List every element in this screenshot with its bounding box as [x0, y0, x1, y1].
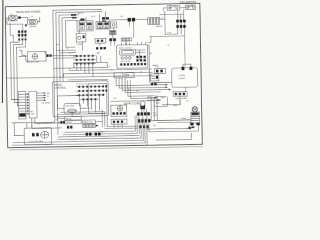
bus wire 5 — [66, 20, 77, 47]
wire lamp feed — [152, 81, 172, 83]
junction marks mid — [25, 24, 37, 28]
wire bottom loop — [58, 110, 108, 135]
border shadow bottom — [10, 147, 202, 150]
wire ground drops — [114, 124, 122, 128]
bottom hatched element — [83, 124, 99, 128]
connector J1 row1 — [18, 30, 27, 33]
right label box — [154, 96, 179, 107]
wire lamp tops — [183, 64, 191, 67]
ignitor cap row 2 — [176, 25, 185, 28]
svg-text:RELAY: RELAY — [66, 117, 73, 120]
connector J1 row3 — [18, 39, 27, 41]
fan wire left D — [58, 138, 141, 139]
supply plug — [140, 101, 145, 112]
svg-text:THERM: THERM — [29, 26, 36, 28]
wire band riser 6 — [130, 80, 157, 98]
svg-text:W: W — [47, 96, 49, 98]
switch SW3 — [76, 33, 86, 45]
wire band riser 2 — [119, 77, 165, 88]
board grid row wires — [76, 86, 102, 99]
wire below harness — [32, 117, 64, 128]
wire rungs into relay cluster — [54, 50, 76, 58]
bus junction blob — [71, 14, 77, 16]
wire cluster lefts — [105, 126, 138, 129]
svg-text:GRN: GRN — [161, 97, 166, 99]
wire board bottom outs — [57, 96, 103, 115]
bottom small box K1 — [65, 116, 82, 120]
svg-text:CONTROL: CONTROL — [55, 87, 67, 89]
cooling fan box — [26, 51, 47, 63]
ground terminal block — [111, 105, 127, 116]
svg-text:DR SW: DR SW — [114, 75, 121, 77]
valve V2 — [28, 16, 38, 24]
svg-text:L.V.: L.V. — [30, 16, 34, 18]
cord connector stack 2 — [138, 119, 151, 123]
wires from valve cluster down — [19, 33, 26, 39]
clock top pins — [121, 42, 145, 45]
ground row 2 — [111, 119, 127, 124]
label smudges extra — [36, 11, 189, 135]
door switch box — [114, 73, 123, 78]
wire caps to left — [149, 28, 185, 67]
fan wire left E — [13, 140, 143, 142]
wire clock right — [147, 37, 151, 83]
wire band low — [111, 100, 161, 103]
transformer T1 — [191, 107, 200, 123]
wire band riser 4 — [125, 77, 160, 93]
fan wire left B — [63, 133, 137, 134]
svg-text:COOLING FAN: COOLING FAN — [29, 140, 44, 143]
switch SW2 — [96, 21, 110, 29]
svg-text:P1 P2 P3 P4: P1 P2 P3 P4 — [76, 84, 87, 86]
connector CB1 — [128, 18, 136, 22]
fan wire left A — [64, 131, 135, 132]
svg-text:ELEC CLOCK: ELEC CLOCK — [119, 47, 132, 49]
wire CB1 drops — [129, 21, 133, 29]
wire board internals — [57, 95, 95, 112]
board relay oval — [64, 103, 80, 114]
wire cross mid — [7, 67, 153, 82]
wire mid left junction — [54, 67, 74, 69]
bottom small box K2 — [65, 120, 82, 124]
bus wire 1 — [10, 9, 104, 123]
svg-text:BK W R BU: BK W R BU — [121, 61, 132, 63]
wire fan to bus — [19, 55, 63, 58]
wire left drop 1 — [10, 40, 20, 99]
bottom blob pair 1 — [86, 133, 92, 136]
svg-text:BAKE: BAKE — [152, 64, 158, 67]
wire color labels right — [153, 113, 158, 118]
relay block upper — [109, 30, 116, 34]
page border frame — [5, 3, 202, 147]
svg-text:OVEN: OVEN — [179, 75, 186, 77]
bus wire 3 — [59, 15, 80, 82]
wire clock top — [111, 30, 134, 45]
svg-text:BK-12: BK-12 — [78, 13, 83, 15]
wire band riser 5 — [128, 80, 155, 96]
gas valve V1 — [8, 14, 17, 21]
board pin grid — [78, 85, 107, 100]
wires grid drops — [77, 56, 101, 77]
oven lamp box — [172, 68, 198, 88]
harness terminal ladder — [18, 91, 26, 119]
board inner box — [88, 84, 107, 114]
relay grid outline — [74, 62, 108, 68]
bus junction blob 2 — [72, 17, 77, 19]
scan edge left — [1, 0, 4, 103]
relay pin grid — [76, 55, 94, 65]
bottom blob pair 2 — [95, 132, 101, 135]
bus end blobs — [102, 17, 109, 22]
fan wire right B — [149, 123, 199, 132]
wire valve loop — [7, 17, 40, 30]
svg-text:LIGHT: LIGHT — [179, 78, 186, 80]
fan wire left G — [12, 145, 147, 147]
wire right col down — [152, 82, 186, 105]
svg-text:XFMR: XFMR — [181, 118, 187, 120]
svg-text:GND TERM: GND TERM — [175, 98, 187, 100]
bus wire 2 — [56, 12, 104, 121]
ignitor cap row 1 — [176, 20, 185, 23]
wire SW risers — [79, 12, 114, 50]
svg-text:MICRO: MICRO — [55, 85, 63, 87]
svg-text:VALVE AND POWER: VALVE AND POWER — [16, 10, 41, 14]
harness board box — [29, 91, 37, 118]
cord connector stack 1 — [137, 112, 150, 115]
switch SW4 — [167, 4, 180, 10]
svg-text:IGNTR: IGNTR — [66, 122, 73, 124]
svg-text:W: W — [167, 45, 169, 47]
bus cluster verticals — [135, 109, 147, 145]
junction blob right feed — [188, 127, 191, 129]
blobs right of grid — [96, 47, 106, 50]
wire left drop lower — [11, 99, 19, 135]
wire caps mid — [178, 22, 185, 25]
svg-text:CMP: CMP — [30, 114, 35, 116]
clock mid blobs — [136, 56, 146, 62]
fan wire left F — [12, 143, 145, 145]
svg-text:GAS IGNITION: GAS IGNITION — [180, 1, 197, 4]
clock pin blobs — [120, 63, 146, 66]
cord connector stack 3 — [139, 125, 148, 128]
wire to broil element — [109, 18, 147, 21]
hatched strip above clock — [121, 38, 131, 41]
bottom wide box D — [83, 120, 96, 124]
box right of SW2 — [111, 22, 117, 28]
connector CB2 — [154, 67, 165, 74]
svg-text:IGN: IGN — [167, 32, 171, 34]
wire left down V — [10, 23, 13, 42]
cooling fan bottom box — [24, 128, 52, 145]
right band risers — [151, 95, 157, 120]
wire band riser 1 — [116, 77, 165, 86]
wire gnd term riser — [155, 99, 191, 140]
svg-text:DK TUNG: DK TUNG — [41, 103, 50, 105]
svg-text:WHT: WHT — [173, 105, 178, 107]
junction blob valve1 — [18, 16, 21, 18]
blobs left of boxes — [60, 121, 65, 124]
bake box left — [152, 64, 158, 67]
relay row wires — [74, 56, 96, 64]
connector J1 row2 — [18, 34, 27, 37]
band blobs left — [151, 83, 157, 86]
wire label smudges — [56, 42, 170, 101]
wire left drop 2 — [13, 40, 23, 102]
oven control board box — [52, 81, 108, 117]
svg-text:DBL LINE: DBL LINE — [65, 106, 75, 108]
fan wire left C — [58, 136, 139, 137]
blobs above clock — [109, 38, 116, 41]
neutral labels arrows — [147, 96, 165, 101]
connector 3 circles — [173, 92, 187, 101]
small box HL — [150, 74, 159, 81]
wire band riser 3 — [122, 77, 169, 91]
door switch box 2 — [125, 72, 134, 77]
svg-text:W: W — [66, 48, 68, 50]
fan box blobs — [32, 133, 39, 137]
lamp connector blobs — [181, 67, 192, 71]
wire fan box left — [14, 123, 32, 136]
arrow heads band — [165, 84, 171, 91]
bus wire 4 — [62, 18, 78, 82]
wire stair steps — [19, 50, 28, 60]
fan wire right A — [147, 126, 190, 129]
wire band to transformer — [151, 120, 191, 123]
clock control box — [116, 45, 147, 69]
switch SW5 — [185, 5, 195, 10]
svg-text:BROIL: BROIL — [156, 26, 163, 28]
harness pins right — [37, 92, 51, 105]
transformer feet blobs — [190, 123, 200, 129]
svg-text:BAKE IGN: BAKE IGN — [83, 121, 93, 124]
fan connector blobs — [46, 54, 51, 57]
box below SW2 — [95, 38, 106, 43]
broil element R1 — [148, 18, 164, 29]
svg-text:FAN MOTOR: FAN MOTOR — [26, 61, 39, 64]
ground block pins — [112, 112, 125, 115]
wire right top links — [160, 8, 186, 35]
svg-text:W: W — [186, 100, 188, 102]
switch SW1 — [77, 18, 93, 31]
wire left drop 3 — [16, 40, 26, 106]
svg-text:W: W — [108, 66, 110, 68]
harness pin marks — [27, 94, 29, 115]
blob pair under stack — [67, 126, 73, 129]
svg-text:W-14: W-14 — [91, 16, 96, 18]
